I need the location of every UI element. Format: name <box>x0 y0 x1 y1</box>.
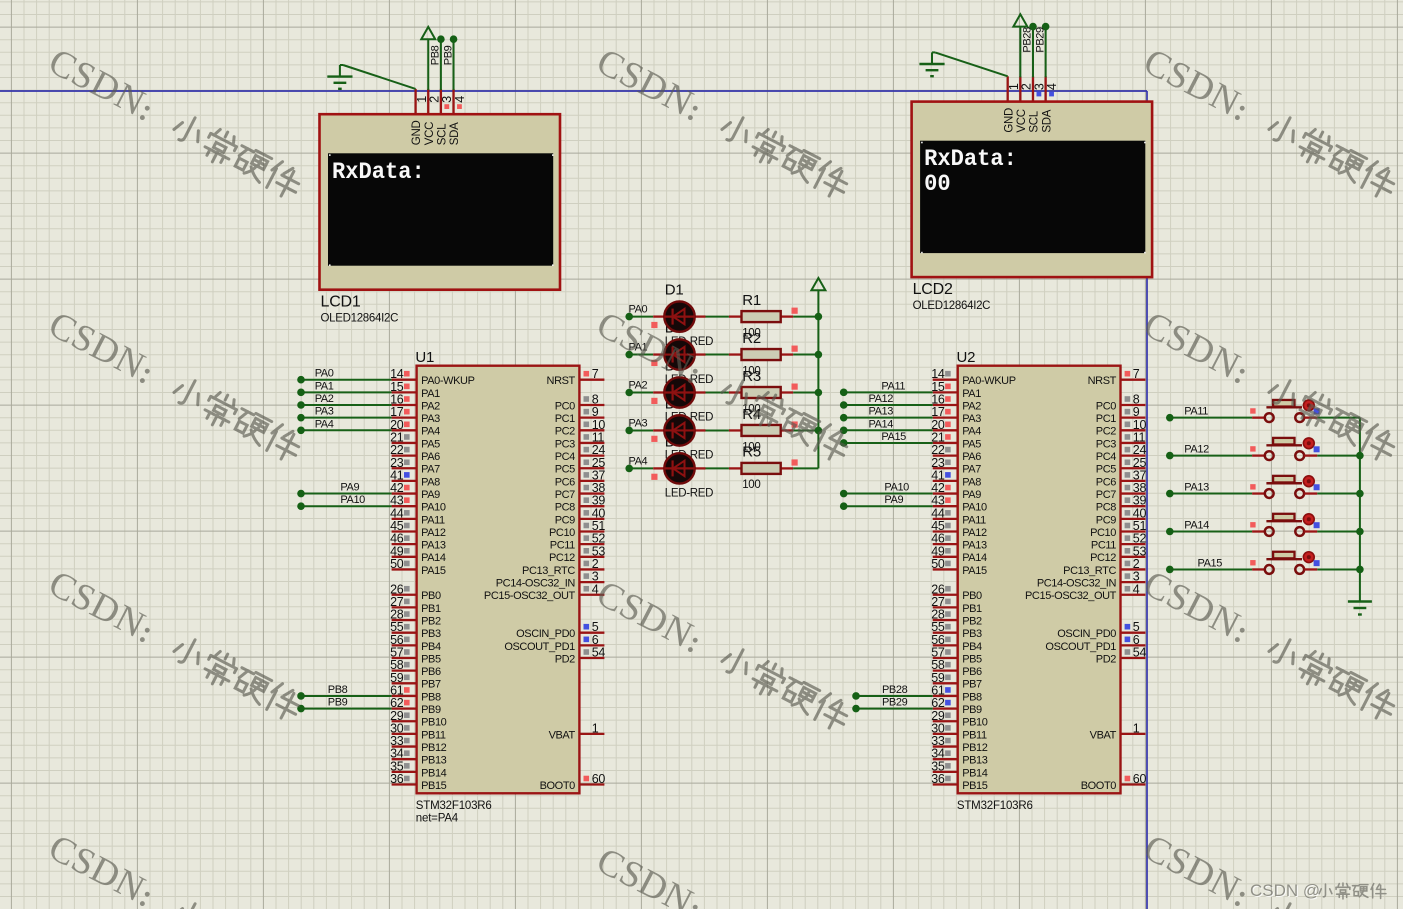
svg-text:PA6: PA6 <box>421 451 440 463</box>
svg-text:PA1: PA1 <box>421 388 440 400</box>
svg-text:PC15-OSC32_OUT: PC15-OSC32_OUT <box>484 590 576 602</box>
svg-text:54: 54 <box>1133 646 1147 660</box>
svg-text:4: 4 <box>1045 83 1059 90</box>
wire VCC rail vertical <box>817 290 819 468</box>
svg-text:PB6: PB6 <box>962 666 982 678</box>
svg-text:PA10: PA10 <box>340 494 365 506</box>
svg-text:PA0: PA0 <box>315 368 334 380</box>
wire VCC to LCD1 pin2 <box>427 39 429 90</box>
svg-text:R3: R3 <box>742 368 761 385</box>
svg-text:PB12: PB12 <box>962 742 988 754</box>
junction U2-PA10 <box>840 490 848 498</box>
svg-text:PC5: PC5 <box>555 464 575 476</box>
wire net U2-PB28 <box>856 695 933 697</box>
wire R4 to VCC rail <box>793 429 818 431</box>
pushbutton PA15 actuator knob <box>1303 552 1314 563</box>
junction U1-PA10 <box>297 502 305 510</box>
svg-text:PC2: PC2 <box>1096 426 1116 438</box>
wire D4 to R4 <box>706 429 729 431</box>
svg-text:PB14: PB14 <box>962 767 988 779</box>
svg-text:PC7: PC7 <box>555 489 575 501</box>
svg-text:PC6: PC6 <box>555 476 575 488</box>
svg-text:7: 7 <box>1133 367 1140 381</box>
wire PB9 to LCD1 pin4 <box>453 39 455 90</box>
wire net U2-PA10 <box>844 493 933 495</box>
wire net PA15 to button <box>1170 568 1252 570</box>
svg-text:OSCOUT_PD1: OSCOUT_PD1 <box>504 641 575 653</box>
svg-text:PB12: PB12 <box>421 742 447 754</box>
svg-text:PB8: PB8 <box>328 684 348 696</box>
svg-text:PC1: PC1 <box>555 413 575 425</box>
junction PB28 <box>1029 23 1037 31</box>
junction PB8 <box>437 35 445 43</box>
resistor R1 pin marker <box>792 308 798 314</box>
junction PA4 <box>625 465 633 473</box>
sheet border blue top <box>0 90 1147 92</box>
svg-text:PA4: PA4 <box>421 426 440 438</box>
net label PB28 <box>1022 27 1034 53</box>
svg-text:NRST: NRST <box>1088 375 1117 387</box>
pushbutton PA11 <box>1252 416 1265 418</box>
svg-text:PA9: PA9 <box>962 489 981 501</box>
svg-text:PA7: PA7 <box>962 464 981 476</box>
wire button PA13 to GND rail <box>1317 493 1360 495</box>
svg-text:PA4: PA4 <box>962 426 981 438</box>
svg-text:R5: R5 <box>742 444 761 461</box>
junction PA1 <box>625 351 633 359</box>
svg-text:PB14: PB14 <box>421 767 447 779</box>
resistor R2 <box>729 353 742 355</box>
svg-text:PC1: PC1 <box>1096 413 1116 425</box>
svg-text:CSDN @: CSDN @ <box>1250 881 1320 900</box>
junction U2-PA12 <box>840 401 848 409</box>
svg-text:PC14-OSC32_IN: PC14-OSC32_IN <box>496 578 576 590</box>
svg-text:OSCIN_PD0: OSCIN_PD0 <box>1057 628 1116 640</box>
svg-text:OLED12864I2C: OLED12864I2C <box>321 313 399 325</box>
LED D5 <box>653 467 664 469</box>
wire net PA2 to D3 <box>629 392 653 394</box>
svg-text:PC8: PC8 <box>555 502 575 514</box>
svg-text:PB8: PB8 <box>430 45 442 65</box>
svg-text:PA7: PA7 <box>421 464 440 476</box>
junction GND rail row 1 <box>1356 452 1364 460</box>
svg-text:PA3: PA3 <box>962 413 981 425</box>
svg-text:PC0: PC0 <box>555 400 575 412</box>
svg-text:PB29: PB29 <box>882 697 908 709</box>
wire button PA11 to GND rail <box>1317 417 1360 419</box>
wire button PA12 to GND rail <box>1317 455 1360 457</box>
svg-text:PC11: PC11 <box>550 540 575 552</box>
power symbol VCC at LCD1 <box>421 27 435 39</box>
svg-text:PA5: PA5 <box>962 438 981 450</box>
svg-text:GND: GND <box>1003 108 1015 133</box>
ground symbol at LCD1 <box>339 65 341 77</box>
wire net U1-PA4 <box>301 429 392 431</box>
watermark CSDN 3 <box>1137 41 1403 205</box>
pushbutton PA11 pin markers <box>1250 408 1255 413</box>
pushbutton PA11 actuator knob <box>1303 400 1314 411</box>
wire net U2-PA12 <box>844 404 933 406</box>
svg-text:PC9: PC9 <box>555 514 575 526</box>
svg-text:PA4: PA4 <box>315 418 334 430</box>
junction GND rail row 2 <box>1356 490 1364 498</box>
U1 right pins <box>579 379 604 381</box>
resistor R4 <box>729 429 742 431</box>
svg-text:00: 00 <box>924 171 951 197</box>
svg-text:PC0: PC0 <box>1096 400 1116 412</box>
resistor R2 pin marker <box>792 346 798 352</box>
LCD module LCD1 body <box>320 114 561 290</box>
svg-text:LCD2: LCD2 <box>913 281 953 298</box>
watermark CSDN 2 <box>590 41 856 205</box>
svg-text:60: 60 <box>1133 772 1147 786</box>
MCU U2 STM32F103R6 body <box>958 366 1121 794</box>
wire net U2-PB29 <box>856 708 933 710</box>
resistor R5 pin marker <box>792 459 798 465</box>
net label PB29 <box>1034 27 1046 53</box>
svg-text:PB8: PB8 <box>962 691 982 703</box>
wire R3 to VCC rail <box>793 392 818 394</box>
U1 left pins <box>392 379 417 381</box>
junction GND rail row 3 <box>1356 528 1364 536</box>
LED D4 pin marker <box>651 436 657 442</box>
svg-text:PA3: PA3 <box>421 413 440 425</box>
LED D2 <box>653 353 664 355</box>
wire PB8 to LCD1 pin3 <box>440 39 442 90</box>
svg-text:PB11: PB11 <box>421 729 446 741</box>
svg-text:STM32F103R6: STM32F103R6 <box>957 800 1033 812</box>
wire net U2-PA11 <box>844 391 933 393</box>
svg-text:PA12: PA12 <box>869 393 894 405</box>
watermark CSDN 12 <box>1137 827 1403 909</box>
svg-text:PA9: PA9 <box>884 494 903 506</box>
LCD1 pin name labels <box>411 121 423 146</box>
wire D2 to R2 <box>706 354 729 356</box>
svg-text:PB9: PB9 <box>962 704 982 716</box>
power symbol VCC at LED rail <box>811 278 825 290</box>
pushbutton PA12 <box>1252 454 1265 456</box>
power symbol VCC at LCD2 <box>1013 14 1027 26</box>
LCD2 screen <box>920 141 1145 253</box>
pushbutton PA13 <box>1252 492 1265 494</box>
svg-text:PC3: PC3 <box>555 438 575 450</box>
junction U1-PA0 <box>297 376 305 384</box>
svg-text:PC6: PC6 <box>1096 476 1116 488</box>
junction U2-PA11 <box>840 389 848 397</box>
svg-text:PB28: PB28 <box>882 684 908 696</box>
junction PA0 <box>625 313 633 321</box>
svg-text:PB10: PB10 <box>421 717 447 729</box>
watermark CSDN 6 <box>1137 304 1403 468</box>
svg-text:SCL: SCL <box>1029 110 1041 132</box>
pushbutton PA13 actuator knob <box>1303 476 1314 487</box>
svg-text:GND: GND <box>411 121 423 146</box>
svg-text:1: 1 <box>1133 721 1140 735</box>
junction VCC rail row 1 <box>815 313 823 321</box>
junction PB29 <box>1042 23 1050 31</box>
watermark CSDN 4 <box>42 304 308 468</box>
svg-text:D1: D1 <box>665 282 684 299</box>
svg-text:PA3: PA3 <box>315 406 334 418</box>
junction U2-PB29 <box>852 705 860 713</box>
wire button PA14 to GND rail <box>1317 531 1360 533</box>
wire R1 to VCC rail <box>793 316 818 318</box>
wire net PA3 to D4 <box>629 429 653 431</box>
junction PA3 <box>625 427 633 435</box>
wire net U2-PA13 <box>844 417 933 419</box>
watermark CSDN 8 <box>590 573 856 737</box>
pushbutton PA14 <box>1252 530 1265 532</box>
LED D1 pin marker <box>651 322 657 328</box>
watermark CSDN 11 <box>590 840 856 909</box>
svg-text:PA14: PA14 <box>962 552 987 564</box>
junction U1-PA3 <box>297 414 305 422</box>
junction U2-PA9 <box>840 502 848 510</box>
svg-text:PB11: PB11 <box>962 729 987 741</box>
watermark CSDN 5 <box>590 304 856 468</box>
svg-text:4: 4 <box>453 96 467 103</box>
svg-text:U1: U1 <box>415 349 434 366</box>
wire ground to LCD1 pin1 <box>340 64 343 66</box>
junction U1-PA1 <box>297 389 305 397</box>
svg-text:PC10: PC10 <box>1090 527 1116 539</box>
junction U2-PB28 <box>852 692 860 700</box>
watermark CSDN 7 <box>42 563 308 727</box>
svg-text:PC15-OSC32_OUT: PC15-OSC32_OUT <box>1025 590 1117 602</box>
svg-text:36: 36 <box>931 772 945 786</box>
watermark CSDN 1 <box>42 41 308 205</box>
svg-text:PB9: PB9 <box>442 45 454 65</box>
LCD2 pins 1-4 stubs <box>1007 76 1009 101</box>
svg-text:R1: R1 <box>742 292 761 309</box>
junction U1-PB8 <box>297 692 305 700</box>
svg-text:PC4: PC4 <box>1096 451 1116 463</box>
svg-text:PB10: PB10 <box>962 717 988 729</box>
svg-text:PA11: PA11 <box>881 380 905 392</box>
svg-text:PC13_RTC: PC13_RTC <box>522 565 575 577</box>
pushbutton PA15 <box>1252 568 1265 570</box>
pushbutton PA13 pin markers <box>1250 484 1255 489</box>
svg-text:VCC: VCC <box>424 122 436 145</box>
svg-text:7: 7 <box>592 367 599 381</box>
svg-text:PC14-OSC32_IN: PC14-OSC32_IN <box>1037 578 1117 590</box>
svg-text:PA13: PA13 <box>869 406 894 418</box>
wire R5 to VCC rail <box>793 467 818 469</box>
svg-text:VBAT: VBAT <box>549 729 576 741</box>
svg-text:PC7: PC7 <box>1096 489 1116 501</box>
pushbutton PA12 actuator knob <box>1303 438 1314 449</box>
junction U2-PA13 <box>840 414 848 422</box>
svg-text:SDA: SDA <box>1041 109 1053 132</box>
svg-text:PB9: PB9 <box>421 704 441 716</box>
junction U2-PA15 <box>840 439 848 447</box>
wire net U1-PA3 <box>301 417 392 419</box>
svg-text:36: 36 <box>390 772 404 786</box>
svg-text:PA15: PA15 <box>1198 557 1223 569</box>
svg-text:SCL: SCL <box>437 123 449 145</box>
wire net PA0 to D1 <box>629 316 653 318</box>
svg-text:PA6: PA6 <box>962 451 981 463</box>
svg-text:PC2: PC2 <box>555 426 575 438</box>
svg-text:PA0-WKUP: PA0-WKUP <box>962 375 1016 387</box>
svg-text:PA12: PA12 <box>1184 444 1209 456</box>
net label PB8 <box>430 45 442 65</box>
wire D3 to R3 <box>706 392 729 394</box>
wire PB29 to LCD2 pin4 <box>1045 27 1047 78</box>
svg-text:net=PA4: net=PA4 <box>416 813 459 825</box>
junction PA15 <box>1166 566 1174 574</box>
wire D1 to R1 <box>706 316 729 318</box>
svg-text:PB8: PB8 <box>421 691 441 703</box>
wire D5 to R5 <box>706 467 729 469</box>
svg-text:PA9: PA9 <box>421 489 440 501</box>
resistor R5 <box>729 467 742 469</box>
svg-text:PA2: PA2 <box>962 400 981 412</box>
svg-text:OSCOUT_PD1: OSCOUT_PD1 <box>1045 641 1116 653</box>
svg-text:PA1: PA1 <box>962 388 981 400</box>
MCU U1 STM32F103R6 body <box>417 366 580 794</box>
svg-text:PA11: PA11 <box>421 514 445 526</box>
ground symbol at LCD2 <box>931 52 933 64</box>
svg-text:PB1: PB1 <box>421 603 441 615</box>
wire PB28 to LCD2 pin3 <box>1032 27 1034 78</box>
pushbutton PA12 pin markers <box>1250 446 1255 451</box>
junction PA2 <box>625 389 633 397</box>
wire net U1-PA9 <box>301 493 392 495</box>
resistor R3 <box>729 391 742 393</box>
svg-text:PA14: PA14 <box>869 418 894 430</box>
svg-text:PC13_RTC: PC13_RTC <box>1063 565 1116 577</box>
ground symbol at button rail <box>1348 600 1372 602</box>
svg-text:PC4: PC4 <box>555 451 575 463</box>
svg-text:OSCIN_PD0: OSCIN_PD0 <box>516 628 575 640</box>
svg-text:PA9: PA9 <box>340 482 359 494</box>
pushbutton PA15 pin markers <box>1250 560 1255 565</box>
svg-text:PC12: PC12 <box>1090 552 1116 564</box>
resistor R1 <box>729 315 742 317</box>
svg-text:PA12: PA12 <box>421 527 446 539</box>
LED D3 pin marker <box>651 398 657 404</box>
wire net PA12 to button <box>1170 455 1252 457</box>
svg-text:PC11: PC11 <box>1091 540 1116 552</box>
wire net U1-PB9 <box>301 708 392 710</box>
svg-text:PA1: PA1 <box>315 380 334 392</box>
svg-text:PA13: PA13 <box>962 540 987 552</box>
U2 left pins <box>933 379 958 381</box>
svg-text:PB4: PB4 <box>421 641 441 653</box>
junction VCC rail row 3 <box>815 389 823 397</box>
svg-text:PA8: PA8 <box>962 476 981 488</box>
svg-text:PB6: PB6 <box>421 666 441 678</box>
svg-text:PA11: PA11 <box>962 514 986 526</box>
watermark CSDN 9 <box>1137 563 1403 727</box>
svg-text:PC10: PC10 <box>549 527 575 539</box>
svg-text:PA2: PA2 <box>315 393 334 405</box>
pushbutton PA14 pin markers <box>1250 522 1255 527</box>
svg-text:PA8: PA8 <box>421 476 440 488</box>
svg-text:PB13: PB13 <box>962 755 988 767</box>
svg-text:PB5: PB5 <box>421 653 441 665</box>
svg-text:RxData:: RxData: <box>924 146 1017 172</box>
svg-text:PB3: PB3 <box>421 628 441 640</box>
svg-text:PA10: PA10 <box>421 502 446 514</box>
junction PB9 <box>450 35 458 43</box>
wire net U1-PB8 <box>301 695 392 697</box>
svg-text:PA5: PA5 <box>421 438 440 450</box>
svg-text:PB1: PB1 <box>962 603 982 615</box>
svg-text:RxData:: RxData: <box>332 159 425 185</box>
corner credit CSDN @xiaochang <box>1250 881 1386 901</box>
LED D4 <box>653 429 664 431</box>
svg-text:PA2: PA2 <box>421 400 440 412</box>
junction PA11 <box>1166 414 1174 422</box>
svg-text:PA14: PA14 <box>421 552 446 564</box>
svg-text:50: 50 <box>390 557 404 571</box>
junction U2-PA14 <box>840 427 848 435</box>
svg-text:PB3: PB3 <box>962 628 982 640</box>
svg-text:PB29: PB29 <box>1034 27 1046 53</box>
svg-text:54: 54 <box>592 646 606 660</box>
svg-text:OLED12864I2C: OLED12864I2C <box>913 300 991 312</box>
wire net U1-PA10 <box>301 505 392 507</box>
wire net U1-PA2 <box>301 404 392 406</box>
junction PA14 <box>1166 528 1174 536</box>
LED D3 <box>653 391 664 393</box>
wire net PA11 to button <box>1170 417 1252 419</box>
LED D5 pin marker <box>651 474 657 480</box>
junction U1-PA2 <box>297 401 305 409</box>
wire GND rail vertical <box>1359 418 1361 602</box>
LCD2 pin 3/4 markers <box>1037 92 1042 97</box>
wire VCC to LCD2 pin2 <box>1019 27 1021 78</box>
svg-text:PB28: PB28 <box>1022 27 1034 53</box>
LCD module LCD2 body <box>912 102 1153 278</box>
svg-text:PB2: PB2 <box>962 615 982 627</box>
svg-text:PB4: PB4 <box>962 641 982 653</box>
wire ground to LCD2 pin1 <box>932 51 935 53</box>
svg-text:PA15: PA15 <box>881 431 906 443</box>
svg-text:PC3: PC3 <box>1096 438 1116 450</box>
junction PA13 <box>1166 490 1174 498</box>
svg-text:U2: U2 <box>957 349 976 366</box>
wire net U2-PA15 <box>844 442 933 444</box>
svg-text:PD2: PD2 <box>1096 653 1116 665</box>
svg-text:PA15: PA15 <box>421 565 446 577</box>
wire net PA13 to button <box>1170 493 1252 495</box>
svg-text:VBAT: VBAT <box>1090 729 1117 741</box>
LED D1 <box>653 315 664 317</box>
U2 right pins <box>1121 379 1146 381</box>
junction U1-PA4 <box>297 427 305 435</box>
svg-text:PB2: PB2 <box>421 615 441 627</box>
svg-text:PA0-WKUP: PA0-WKUP <box>421 375 475 387</box>
svg-text:100: 100 <box>742 479 760 491</box>
svg-text:PB0: PB0 <box>421 590 441 602</box>
svg-text:PC12: PC12 <box>549 552 575 564</box>
svg-text:PB7: PB7 <box>421 679 441 691</box>
junction VCC rail row 2 <box>815 351 823 359</box>
svg-text:PA11: PA11 <box>1184 406 1208 418</box>
net label PB9 <box>442 45 454 65</box>
junction VCC rail row 4 <box>815 427 823 435</box>
svg-text:PB7: PB7 <box>962 679 982 691</box>
sheet border blue right <box>1146 91 1148 909</box>
wire net U2-PA14 <box>844 429 933 431</box>
svg-text:PB0: PB0 <box>962 590 982 602</box>
svg-text:STM32F103R6: STM32F103R6 <box>416 800 492 812</box>
svg-text:PA14: PA14 <box>1184 520 1209 532</box>
LCD1 pins 1-4 stubs <box>414 89 416 114</box>
